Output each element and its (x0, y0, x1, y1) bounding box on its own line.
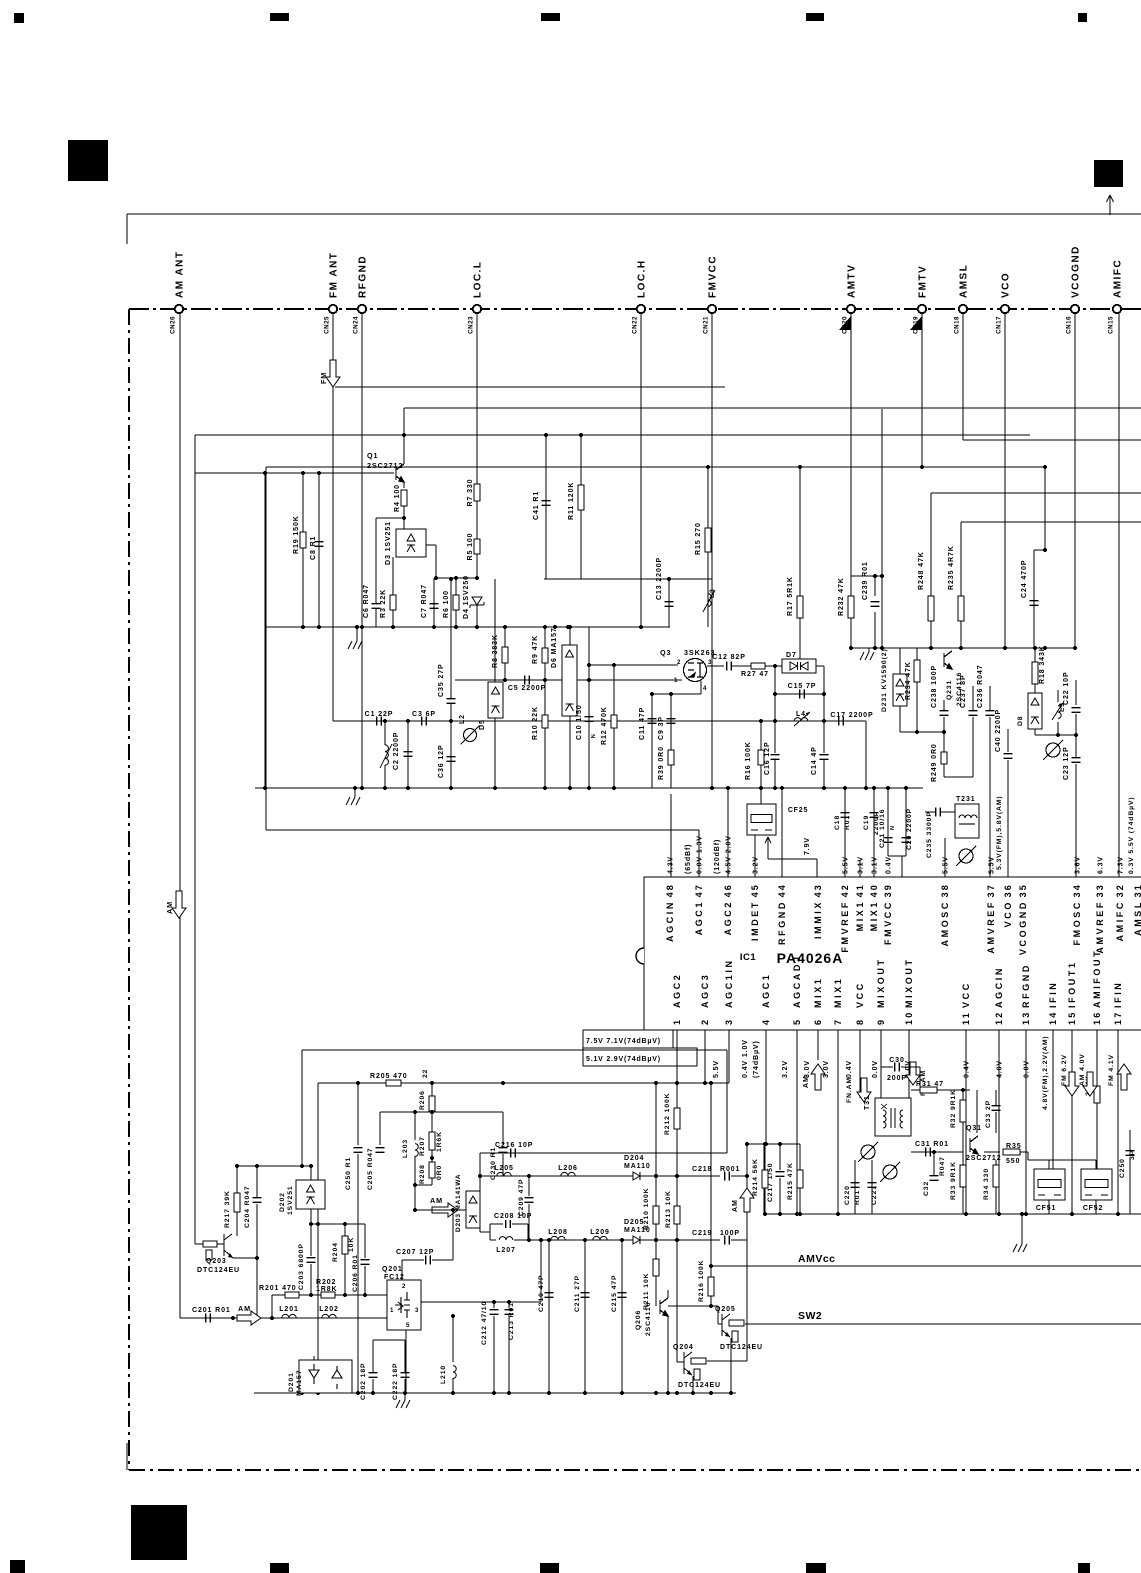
wire bus left riser (763, 1144, 765, 1214)
svg-text:(120dBf): (120dBf) (714, 839, 721, 874)
wire C10 col (588, 627, 590, 788)
svg-text:7: 7 (833, 1018, 843, 1025)
wire pin12 col (998, 1030, 1000, 1214)
voltage table box row2 (583, 1048, 697, 1066)
resistor R205 (386, 1080, 401, 1086)
node rail1393 x693 (691, 1391, 695, 1395)
node bus d (997, 1212, 1001, 1216)
svg-text:3.2V: 3.2V (782, 1060, 789, 1078)
wire R15 col (707, 467, 709, 528)
svg-text:11: 11 (961, 1011, 971, 1025)
svg-text:R35: R35 (1006, 1143, 1022, 1150)
svg-text:D202: D202 (279, 1192, 286, 1212)
wire pin41 stub (859, 860, 861, 877)
capacitor C237 (969, 711, 978, 716)
wire R235 col top (960, 522, 962, 596)
svg-text:C9 3P: C9 3P (658, 716, 665, 740)
svg-text:C6 R047: C6 R047 (363, 584, 370, 618)
frame top line (127, 213, 1141, 215)
wire C202 col (372, 1340, 374, 1372)
diode D204 MA110 (633, 1172, 640, 1180)
AM arrow right (432, 1203, 458, 1217)
svg-text:3: 3 (415, 1307, 419, 1314)
wire par top2 (512, 1223, 528, 1225)
node C14 bot (822, 786, 826, 790)
node x432 1158 (430, 1156, 434, 1160)
node y579 C35 (449, 577, 453, 581)
wire Q201 pin3 row (421, 1301, 541, 1303)
svg-text:1R8K: 1R8K (316, 1286, 338, 1293)
wire C40 col (1007, 729, 1009, 752)
capacitor C201 (206, 1314, 211, 1323)
svg-text:3.6V: 3.6V (1075, 856, 1082, 874)
wire C40 bot to pin36 (1007, 760, 1009, 877)
inductor L209 (593, 1236, 607, 1240)
svg-text:C211 27P: C211 27P (574, 1275, 581, 1312)
wire CN25 FM ANT drop (332, 313, 334, 721)
capacitor C239 (871, 602, 880, 607)
top connector bus (129, 308, 1141, 310)
svg-text:RFGND: RFGND (1021, 963, 1031, 1008)
node C239 top (873, 574, 877, 578)
wire pin45 stub (754, 835, 756, 877)
svg-text:7.3V: 7.3V (1118, 856, 1125, 874)
svg-text:7.5V 7.1V(74dBµV): 7.5V 7.1V(74dBµV) (586, 1038, 661, 1045)
svg-text:41: 41 (855, 883, 865, 897)
wire R216 wires (710, 1266, 712, 1277)
resistor R33 (960, 1165, 966, 1187)
svg-text:CN18: CN18 (954, 316, 961, 334)
wire y777 tie (944, 776, 973, 778)
svg-text:C31 R01: C31 R01 (915, 1141, 949, 1148)
svg-text:C16 12P: C16 12P (764, 741, 771, 775)
resistor R213 (674, 1206, 680, 1224)
wire L203 col (414, 1112, 416, 1140)
svg-text:4: 4 (761, 1018, 771, 1025)
svg-text:MIX1: MIX1 (869, 900, 879, 931)
wire CF25 out arrow (765, 837, 771, 859)
svg-text:VCOGND: VCOGND (1071, 245, 1082, 298)
resistor R235 (958, 596, 964, 621)
wire R249 bot (943, 764, 945, 777)
svg-text:R234 47K: R234 47K (905, 661, 912, 700)
wire R27 to D7 (765, 665, 782, 667)
svg-text:C35 27P: C35 27P (438, 663, 445, 697)
connector CN24 RFGND (358, 305, 366, 313)
wire Q203 emitter drop (256, 1258, 258, 1318)
svg-text:C32: C32 (923, 1181, 930, 1196)
wire Q1 emitter to R4 (403, 482, 405, 488)
svg-text:CN26: CN26 (170, 316, 177, 334)
svg-text:C212 47/10: C212 47/10 (481, 1301, 488, 1345)
resistor R248 (928, 596, 934, 621)
wire pin5 col (796, 1030, 798, 1214)
svg-text:R16 100K: R16 100K (745, 741, 752, 780)
wire Q31 collector (976, 1090, 978, 1133)
svg-text:D7: D7 (786, 652, 797, 659)
trimmer near C221 (880, 1162, 900, 1182)
svg-text:3.2V: 3.2V (753, 856, 760, 874)
svg-text:IMMIX: IMMIX (813, 900, 823, 939)
inductor L205 (497, 1172, 511, 1176)
wire pin17 col (1117, 1030, 1119, 1214)
resistor R212 (674, 1108, 680, 1129)
capacitor C8 (315, 542, 324, 547)
wire C215 47P col (621, 1240, 623, 1393)
wire par bot1 (490, 1239, 496, 1241)
node x775 y721 (773, 719, 777, 723)
capacitor C41 (542, 501, 551, 506)
svg-text:C2 2200P: C2 2200P (393, 732, 400, 770)
wire C23 to pin34 (1075, 764, 1077, 877)
wire x541 riser (540, 1240, 542, 1302)
svg-text:1R6K: 1R6K (436, 1131, 443, 1152)
node y721 L1 (383, 719, 387, 723)
node rail1393 x358 (356, 1391, 360, 1395)
wire C238 bot (943, 717, 945, 752)
wire CN16 VCOGND drop (1074, 313, 1076, 648)
wire D6 top (569, 627, 571, 645)
node y721 C35 (449, 719, 453, 723)
svg-text:3.0V: 3.0V (823, 1060, 830, 1078)
L4 arrow (794, 712, 810, 726)
svg-text:R208: R208 (419, 1164, 426, 1184)
wire x1045 col (1044, 467, 1046, 550)
wire box2 bottom y1153 (480, 1152, 727, 1154)
svg-text:AM: AM (803, 1075, 810, 1088)
node y1166 a (255, 1164, 259, 1168)
svg-text:C218: C218 (692, 1166, 712, 1173)
node x677 1240 (675, 1238, 679, 1242)
capacitor C20 (902, 838, 911, 843)
node C21 top (886, 786, 890, 790)
node x656 1240 (654, 1238, 658, 1242)
svg-text:FN.AM: FN.AM (846, 1077, 853, 1103)
node x882 648 (880, 646, 884, 650)
node y1083 c (501, 1081, 505, 1085)
wire C203 col (310, 1224, 312, 1256)
wire pin15 col (1071, 1030, 1073, 1214)
capacitor C217 elec (776, 1172, 785, 1177)
wire CN21 FMVCC drop (711, 313, 713, 788)
wire L210 col (452, 1316, 454, 1362)
svg-text:R4 100: R4 100 (394, 484, 401, 512)
capacitor C206 (361, 1260, 370, 1265)
node rail648 d (959, 646, 963, 650)
svg-text:R215 47K: R215 47K (787, 1162, 794, 1200)
svg-text:C40 2200P: C40 2200P (995, 709, 1002, 752)
svg-text:R31 47: R31 47 (916, 1081, 944, 1088)
svg-text:R19 150K: R19 150K (293, 515, 300, 554)
wire C11 col (651, 694, 653, 788)
wire R3 col (392, 557, 394, 627)
wire CN17 VCO drop (1004, 313, 1006, 648)
registration bar top 2 (541, 13, 560, 21)
node y1112 a (413, 1110, 417, 1114)
svg-text:2: 2 (700, 1018, 710, 1025)
wire Q204 collector (707, 1360, 747, 1362)
wire Q3 drain line (707, 665, 724, 667)
node y578 c (475, 576, 479, 580)
wire C33 bot (995, 1112, 997, 1133)
wire R217 col (236, 1166, 238, 1193)
inductor L3 (708, 594, 711, 607)
svg-text:R201 470: R201 470 (259, 1285, 297, 1292)
capacitor C33 (992, 1106, 1001, 1111)
svg-text:C5 2200P: C5 2200P (508, 685, 546, 692)
svg-text:4.5V 2.0V: 4.5V 2.0V (726, 835, 733, 874)
wire Q204 emitter (692, 1376, 694, 1393)
wire C8 col (318, 473, 320, 627)
FM 6.2V arrow pin15 (1065, 1072, 1079, 1096)
node gnd1248 (1020, 1212, 1024, 1216)
capacitor C250a (354, 1148, 363, 1153)
svg-text:MIXOUT: MIXOUT (904, 957, 914, 1008)
wire box2 right (726, 1050, 728, 1153)
node y473 b (301, 471, 305, 475)
wire D202 tap (310, 1209, 312, 1224)
wire C22 col (1075, 680, 1077, 705)
svg-text:AM ANT: AM ANT (175, 250, 186, 298)
node rail648 a (849, 646, 853, 650)
svg-text:LOC.L: LOC.L (473, 261, 484, 299)
node rail788 a (263, 786, 267, 790)
wire C230 col (502, 1112, 504, 1145)
node R16 top (759, 719, 763, 723)
wire C205 col (379, 1112, 381, 1145)
node C8 bottom (317, 625, 321, 629)
resistor R15 (705, 528, 711, 552)
L5 arrow (1052, 703, 1063, 720)
svg-text:C8 R1: C8 R1 (310, 536, 317, 560)
wire C250a bot (357, 1154, 359, 1393)
resistor R234 (914, 660, 920, 682)
svg-text:DTC124EU: DTC124EU (678, 1382, 721, 1389)
wire y1295 drop (271, 1295, 273, 1318)
svg-text:R3 22K: R3 22K (380, 589, 387, 618)
capacitor C204 (253, 1198, 262, 1203)
svg-text:D4 1SV250: D4 1SV250 (463, 575, 470, 619)
wire C238 col (943, 700, 945, 710)
resistor R7 (474, 484, 480, 501)
diode D205 MA110 (633, 1236, 640, 1244)
wire C19 col (873, 788, 875, 877)
wire CN18 AMSL horizontal (963, 439, 1141, 441)
AM signal arrow down (172, 891, 186, 918)
node y1083 g (709, 1081, 713, 1085)
node y467 r17 (798, 465, 802, 469)
node y1083 d (654, 1081, 658, 1085)
svg-text:46: 46 (723, 883, 733, 897)
wire AGC corner x266 (265, 467, 267, 830)
capacitor C250b (1126, 1151, 1135, 1156)
ceramic filter CF25 (747, 804, 776, 835)
wire C24 col (1033, 550, 1035, 648)
varactor D231 KV1590 (893, 674, 907, 706)
AM arrow x747 (740, 1188, 754, 1212)
node rail1393 x405 (403, 1391, 407, 1395)
svg-text:16: 16 (1092, 1011, 1102, 1025)
wire L210 bot (452, 1378, 454, 1393)
svg-text:550: 550 (1006, 1158, 1020, 1165)
wire pin44 stub (781, 788, 783, 877)
connector CN21 FMVCC (708, 305, 716, 313)
wire R234 col (916, 648, 918, 682)
node q203e (255, 1256, 259, 1260)
wire C236 bot to pin37 (989, 717, 991, 877)
svg-text:5.5V: 5.5V (843, 856, 850, 874)
node D202 tap (309, 1222, 313, 1226)
trimmer near C23 (1043, 740, 1063, 760)
wire net y408 long (404, 407, 1141, 409)
node y735 a (1056, 733, 1060, 737)
wire R6 col (455, 578, 457, 627)
svg-text:R216 100K: R216 100K (698, 1260, 705, 1303)
wire C250 col (1129, 1130, 1131, 1150)
node rail788 h (360, 786, 364, 790)
transistor Q205 DTC124EU (722, 1314, 744, 1342)
svg-text:VCC: VCC (855, 981, 865, 1008)
wire C204 col (256, 1166, 258, 1197)
wire R15 to y579 (707, 552, 709, 579)
capacitor C9 (667, 719, 676, 724)
svg-text:33: 33 (1095, 883, 1105, 897)
resistor R31 (920, 1087, 937, 1093)
svg-text:37: 37 (986, 883, 996, 897)
capacitor C31 (926, 1148, 931, 1157)
ground under AM rail (396, 1400, 410, 1408)
wire L4 row (749, 720, 793, 722)
wire R34 bot (995, 1187, 997, 1214)
svg-text:45: 45 (750, 883, 760, 897)
wire R232 bot (850, 618, 852, 648)
AM arrow pin5 (811, 1064, 825, 1090)
svg-text:4.3V: 4.3V (668, 856, 675, 874)
wire box2 left (301, 1050, 303, 1166)
svg-text:L203: L203 (402, 1139, 409, 1158)
svg-text:R235 4R7K: R235 4R7K (948, 545, 955, 590)
capacitor C24 (1030, 601, 1039, 606)
wire ground stub 627 (356, 627, 358, 641)
svg-text:AGC2: AGC2 (672, 973, 682, 1008)
wire D231 bot (899, 706, 901, 732)
capacitor C205 (376, 1148, 385, 1153)
node rail627 e (454, 625, 458, 629)
wire AM line ext (415, 1209, 466, 1211)
node gnd788 (353, 786, 357, 790)
capacitor C212 elec (490, 1310, 499, 1315)
svg-text:D6 MA157: D6 MA157 (551, 627, 558, 668)
wire x711 col (710, 1083, 712, 1266)
ground under rail 648 (860, 652, 874, 660)
svg-text:0.0V: 0.0V (872, 1060, 879, 1078)
wire R12 col (613, 665, 615, 788)
wire C202 tie (373, 1339, 405, 1341)
node y1224 R204 (343, 1222, 347, 1226)
node y578 b (454, 576, 458, 580)
wire R234 bot (916, 682, 918, 732)
wire D201 left top (313, 1356, 315, 1360)
svg-text:C208 10P: C208 10P (494, 1213, 532, 1220)
svg-text:C41 R1: C41 R1 (533, 491, 540, 520)
svg-text:1SV251: 1SV251 (287, 1185, 294, 1215)
svg-text:CF25: CF25 (788, 807, 808, 814)
FM signal arrow down on CN25 (326, 360, 340, 387)
wire CF25 jog h (768, 858, 817, 860)
node y473 c (317, 471, 321, 475)
wire x882 col (881, 409, 883, 648)
dual diode D201 MA157 box (299, 1360, 352, 1393)
inductor L206 (561, 1172, 575, 1176)
wire C9R39 col (670, 694, 672, 788)
wire CN23 LOC.L drop (476, 313, 478, 578)
wire C211 27P col (584, 1240, 586, 1393)
node y1144 c (764, 1142, 768, 1146)
resistor R16 (758, 750, 764, 765)
wire L5 bot (1057, 722, 1059, 735)
resistor R11 (578, 485, 584, 510)
svg-text:R5 100: R5 100 (467, 533, 474, 561)
wire Q205 base (717, 1306, 719, 1324)
svg-text:C203 6800P: C203 6800P (298, 1243, 305, 1290)
svg-text:32: 32 (1115, 883, 1125, 897)
svg-text:C18: C18 (834, 815, 841, 830)
node y473 a (263, 471, 267, 475)
node rail648 c (929, 646, 933, 650)
wire C35 col top (450, 579, 452, 698)
wire pin4 col (765, 1030, 767, 1144)
wire line y579 (544, 578, 712, 580)
capacitor C211 27P (581, 1293, 590, 1298)
resistor R217 (234, 1193, 240, 1212)
wire R31 row (911, 1089, 970, 1091)
wire pin16 col (1096, 1030, 1098, 1086)
registration bar top 3 (806, 13, 824, 21)
dual diode D8 (1028, 693, 1042, 729)
wire D4 bottom (476, 605, 478, 627)
wire x480 riser (479, 1153, 481, 1210)
svg-text:C20 2200P: C20 2200P (906, 808, 913, 850)
svg-text:CN25: CN25 (324, 316, 331, 334)
node y438 r11 (579, 433, 583, 437)
FN.AM arrow pin10 (906, 1062, 920, 1085)
marker triangle at CN20 (839, 316, 851, 330)
svg-text:200P: 200P (887, 1075, 907, 1082)
resistor R206 (429, 1096, 435, 1111)
svg-text:IFIN: IFIN (1113, 981, 1123, 1008)
svg-text:48: 48 (665, 883, 675, 897)
wire C206 col (364, 1224, 366, 1258)
svg-text:C204 R047: C204 R047 (244, 1186, 251, 1229)
wire gnd648 stub (868, 648, 870, 652)
FET Q3 3SK263 (684, 659, 707, 682)
svg-text:5.1V 2.9V(74dBµV): 5.1V 2.9V(74dBµV) (586, 1056, 661, 1063)
svg-text:MIX1: MIX1 (813, 977, 823, 1008)
svg-text:MIX1: MIX1 (833, 977, 843, 1008)
ground under rail 627 (348, 641, 362, 649)
wire R11 col (580, 435, 582, 579)
wire R4 to D3 (403, 506, 405, 529)
wire y856 tie (888, 855, 906, 857)
svg-text:CN15: CN15 (1108, 316, 1115, 334)
parallel C208 L207 group (490, 1224, 528, 1240)
svg-text:3.1V: 3.1V (872, 856, 879, 874)
node x824 y694 (822, 692, 826, 696)
node C210 47P top (547, 1238, 551, 1242)
svg-text:R001: R001 (720, 1166, 740, 1173)
wire R232 wires (850, 576, 852, 596)
svg-text:R212 100K: R212 100K (664, 1093, 671, 1136)
